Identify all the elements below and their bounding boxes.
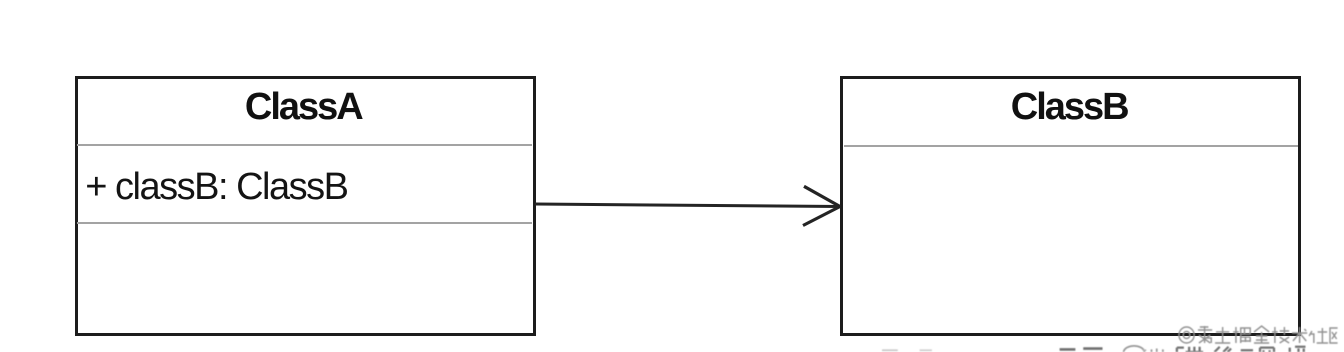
ClassA divider 1	[77, 144, 532, 146]
arrowhead upper barb	[804, 186, 840, 206]
社	[1309, 328, 1328, 343]
circle arc top	[1124, 346, 1145, 352]
small marks	[1152, 349, 1163, 352]
arrowhead lower barb	[803, 207, 840, 226]
区	[1330, 328, 1338, 343]
class box ClassB	[840, 76, 1301, 336]
ClassB divider	[844, 145, 1298, 147]
bottom cut-off watermark fragments	[840, 345, 1344, 352]
术	[1292, 327, 1307, 343]
ClassB title	[842, 88, 1296, 126]
稀	[1198, 326, 1212, 343]
arrow shaft	[535, 204, 840, 207]
ClassA attribute + classB: ClassB	[85, 168, 347, 206]
ClassA title	[76, 88, 531, 126]
faint tilde fragments	[882, 349, 898, 351]
ClassA divider 2	[77, 222, 532, 224]
bold glyph tops	[1177, 347, 1306, 352]
掘	[1233, 327, 1250, 343]
dash fragments	[1060, 347, 1103, 351]
class box ClassA	[75, 76, 536, 336]
@ glyph	[1179, 327, 1194, 343]
watermark @稀土掘金技术社区 (drawn as vector strokes)	[1178, 324, 1344, 352]
土	[1215, 327, 1230, 343]
技	[1272, 327, 1289, 343]
金	[1254, 326, 1269, 343]
